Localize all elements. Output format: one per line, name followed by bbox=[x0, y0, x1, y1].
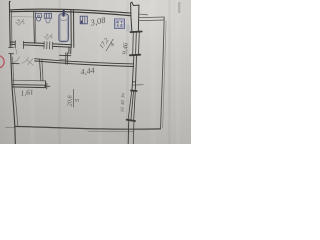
svg-text:4,44: 4,44 bbox=[80, 66, 95, 77]
svg-text:5: 5 bbox=[74, 99, 81, 102]
svg-text:1,61: 1,61 bbox=[20, 87, 34, 98]
svg-text:20,6: 20,6 bbox=[67, 95, 74, 107]
svg-text:4б: 4б bbox=[121, 100, 126, 106]
svg-text:1б: 1б bbox=[121, 107, 126, 113]
svg-text:9,46: 9,46 bbox=[122, 42, 130, 55]
